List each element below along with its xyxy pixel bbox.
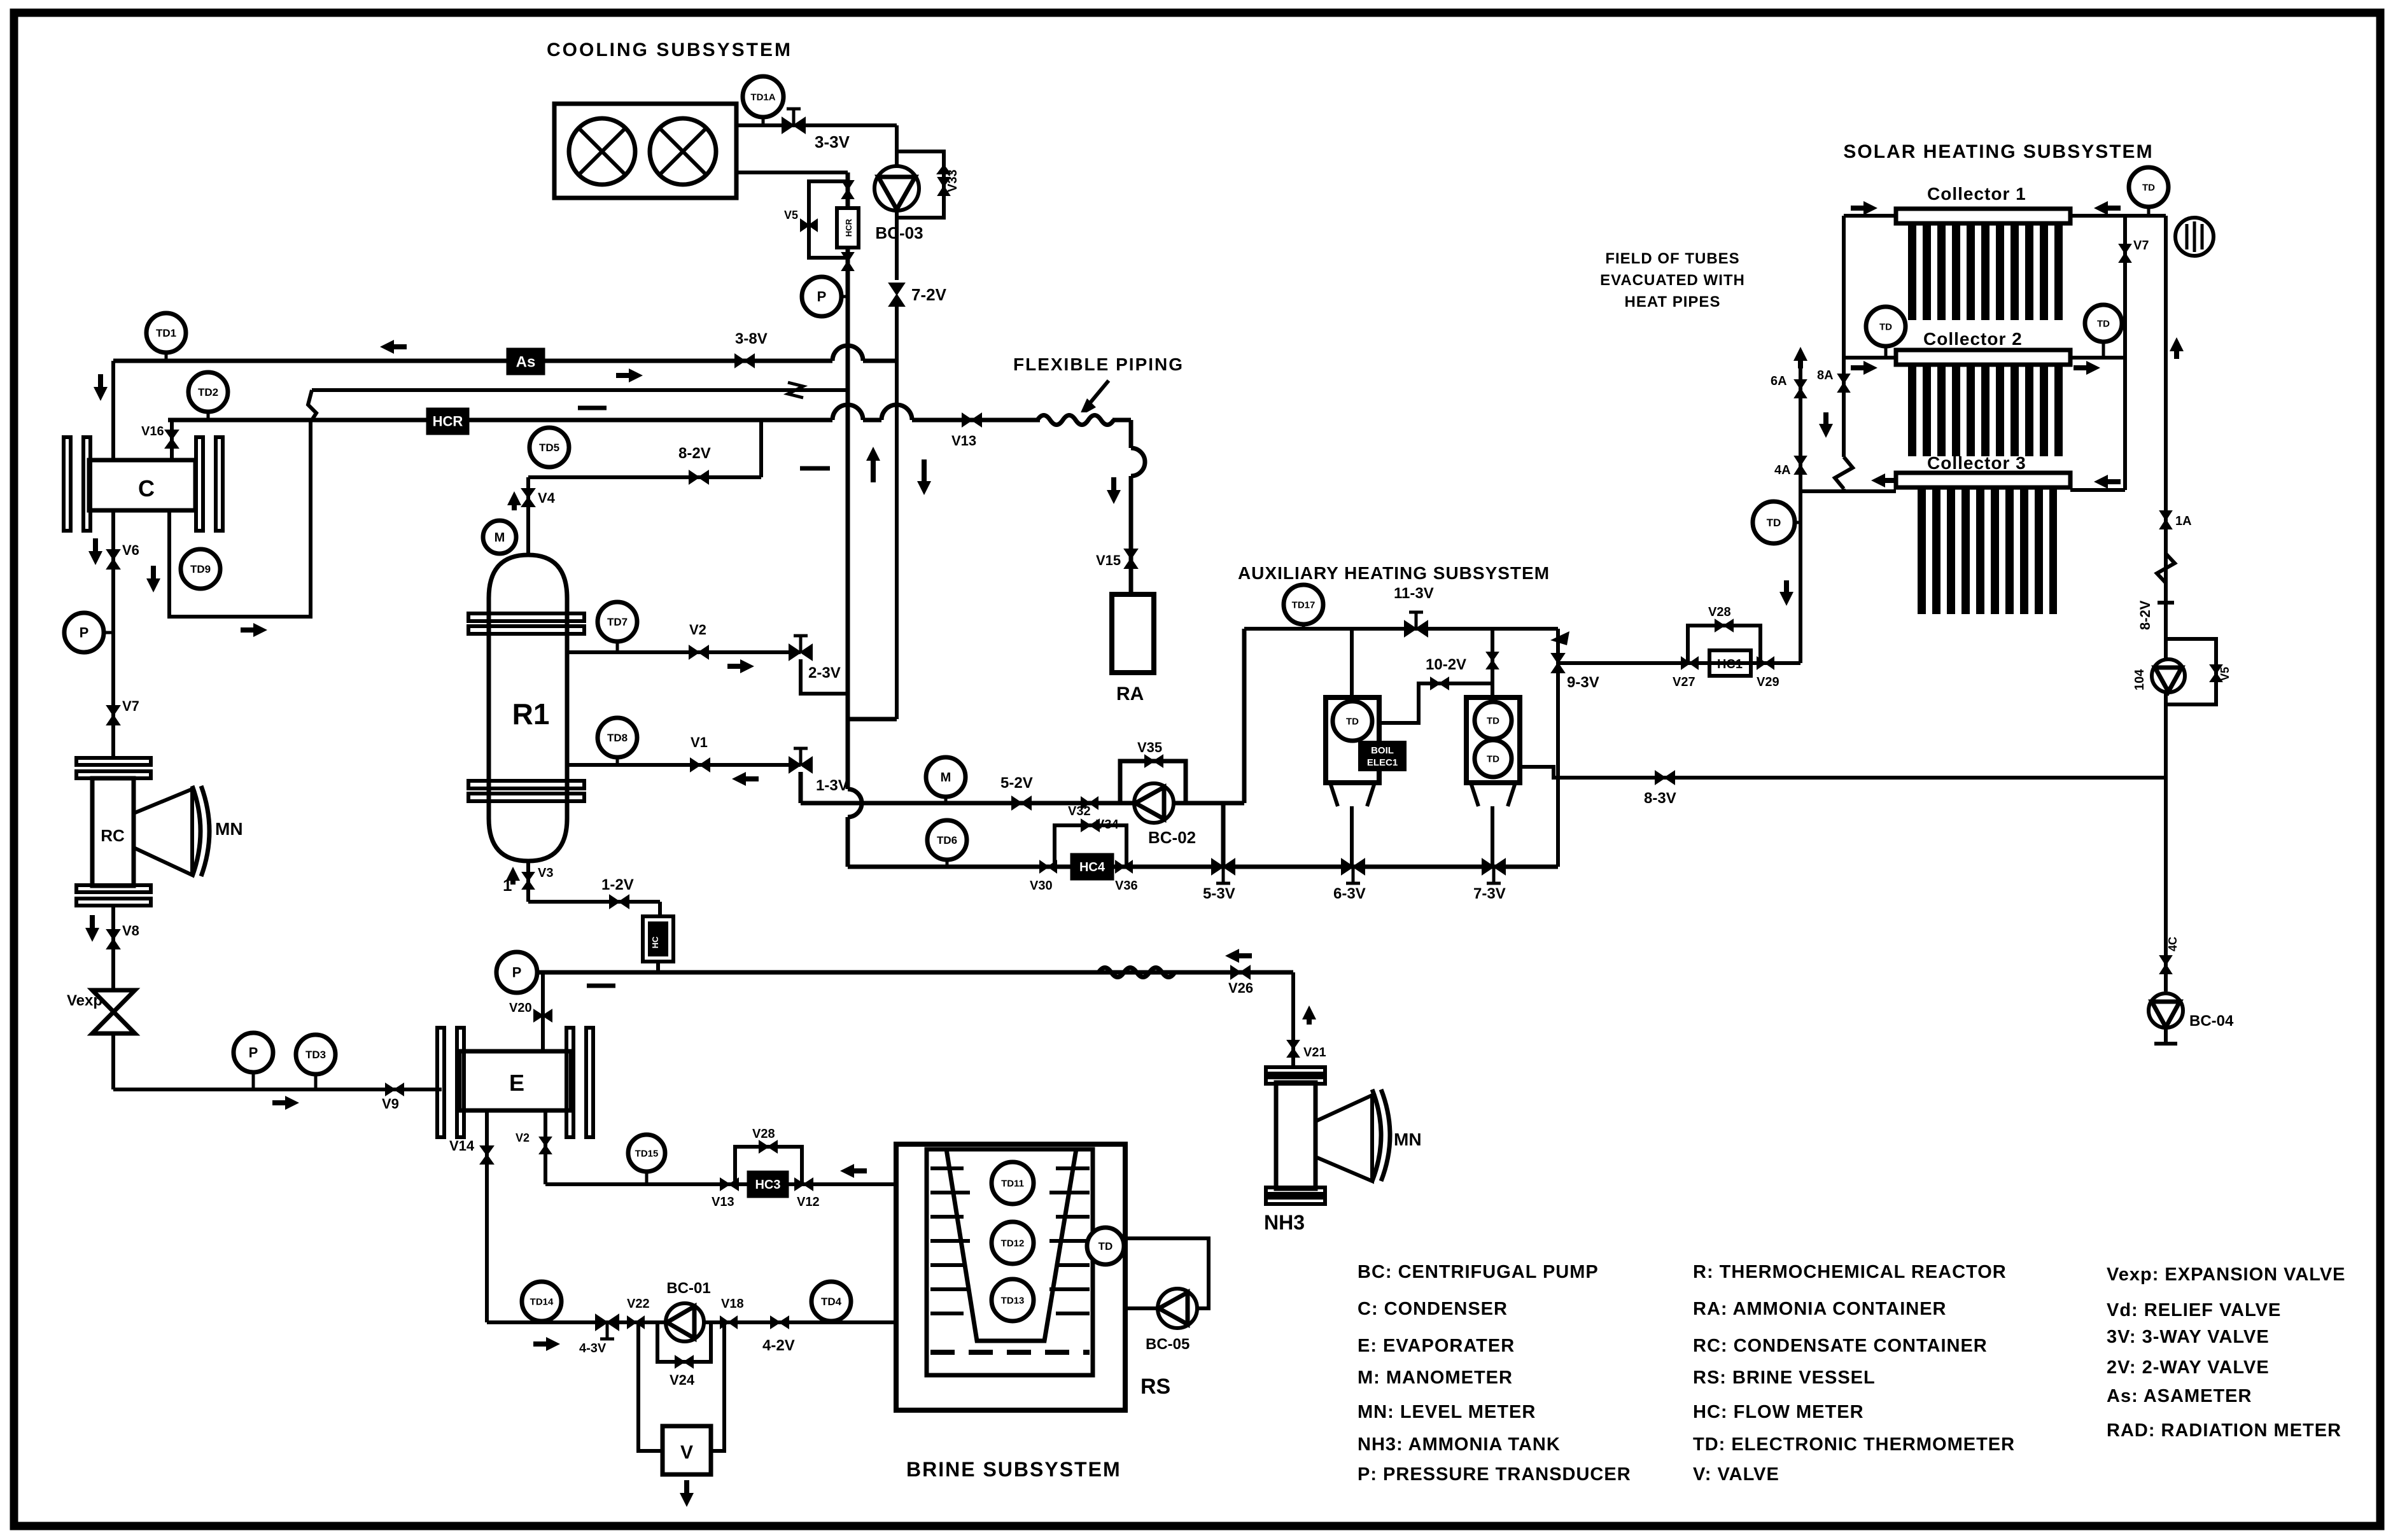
3-way valve 6-3V	[1342, 859, 1365, 874]
svg-text:TD6: TD6	[937, 834, 957, 846]
svg-text:HCR: HCR	[844, 218, 853, 237]
3-way valve 5-3V	[1212, 859, 1235, 874]
condenser C body	[89, 460, 195, 510]
svg-text:4-2V: 4-2V	[762, 1337, 795, 1354]
wire TD17 header line y988	[1244, 627, 1558, 631]
svg-text:P: P	[249, 1045, 258, 1061]
ammonia container RA	[1112, 594, 1154, 673]
wire line3 y660 condenser to flexible piping	[168, 418, 832, 423]
svg-text:HCR: HCR	[433, 414, 463, 430]
svg-text:V28: V28	[1708, 605, 1731, 619]
svg-text:11-3V: 11-3V	[1394, 585, 1434, 602]
svg-text:V27: V27	[1673, 675, 1695, 689]
fan 2	[650, 118, 716, 185]
reactor R1 lower flange	[468, 781, 584, 788]
svg-text:9-3V: 9-3V	[1567, 674, 1599, 691]
wire E to brine upper line y1861	[545, 1182, 896, 1186]
svg-text:TD2: TD2	[198, 386, 218, 398]
wire condenser bottom left down via V6	[111, 510, 115, 759]
solar pump bypass loop with valve V5	[2166, 639, 2216, 704]
wire R1 right upper line y1025	[567, 650, 801, 654]
svg-text:TD: TD	[1098, 1240, 1113, 1252]
valve V7 on right loop	[2119, 244, 2131, 262]
valve 1-2V	[610, 895, 629, 908]
valve V29	[1757, 657, 1774, 669]
dash mark under line3 right of TD5	[800, 466, 830, 471]
svg-text:10-2V: 10-2V	[1426, 656, 1466, 673]
3-way valve 3-3V	[782, 118, 805, 133]
brine funnel	[946, 1149, 1076, 1341]
wire line y1528 from P to NH3 corner (with flexible section)	[1100, 965, 1173, 980]
wire R1 right lower line y1202	[567, 763, 801, 767]
valve 7-2V	[889, 283, 904, 306]
svg-text:V30: V30	[1030, 879, 1053, 893]
svg-text:V8: V8	[122, 923, 139, 939]
svg-text:2V: 2-WAY VALVE: 2V: 2-WAY VALVE	[2107, 1357, 2270, 1378]
svg-text:TD: TD	[2097, 318, 2110, 329]
valve 4A on return riser	[1795, 456, 1806, 474]
wire BC-02 suction line y1262	[801, 801, 1244, 806]
arrow left on upper brine line	[845, 1168, 867, 1173]
arrow right before 2-3V	[727, 664, 749, 669]
svg-text:7-3V: 7-3V	[1473, 885, 1506, 902]
svg-text:R1: R1	[512, 697, 550, 731]
flow meter HC3 box	[747, 1171, 789, 1198]
instrument TD22 above collector2 left	[1866, 307, 1905, 346]
wire collector3 right link	[2070, 488, 2125, 492]
svg-text:FIELD OF TUBES: FIELD OF TUBES	[1605, 250, 1739, 267]
svg-text:BC-02: BC-02	[1148, 828, 1196, 847]
fan unit (air cooler) box	[554, 104, 736, 198]
arrow down below V box	[684, 1480, 689, 1502]
svg-text:6-3V: 6-3V	[1333, 885, 1366, 902]
instrument TD4	[811, 1282, 851, 1321]
wire 10-2V link boiler1 to boiler2	[1379, 683, 1492, 723]
arrow right on line2	[616, 373, 638, 378]
wire bottom 3V line y1362	[848, 865, 1558, 869]
wire boiler 1 bottom stub to 6-3V	[1350, 806, 1354, 867]
svg-text:V13: V13	[951, 433, 976, 449]
valve V8	[107, 930, 120, 949]
svg-text:V4: V4	[538, 490, 556, 506]
ammonia tank NH3 bottom flange	[1266, 1187, 1325, 1194]
svg-text:V5: V5	[2219, 667, 2231, 681]
arrow down between solar verticals	[1823, 412, 1828, 433]
svg-text:2-3V: 2-3V	[808, 664, 841, 682]
pump BC-01 bypass with valve V24	[657, 1322, 711, 1362]
svg-text:RS: RS	[1140, 1375, 1170, 1399]
wire collector2 left link	[1844, 356, 1896, 360]
arrow up beside riser x1332	[871, 452, 876, 482]
valve V2	[689, 646, 708, 659]
svg-text:8-2V: 8-2V	[2137, 600, 2153, 630]
instrument TD19 in boiler 2	[1475, 702, 1512, 739]
svg-text:V21: V21	[1303, 1046, 1326, 1060]
valve V13b	[720, 1179, 738, 1190]
wire fanbox top to pump corner y197	[736, 123, 897, 127]
wire R1 bottom line to HCR2	[528, 900, 660, 904]
valve V36	[1116, 861, 1132, 872]
svg-text:P: PRESSURE TRANSDUCER: P: PRESSURE TRANSDUCER	[1358, 1464, 1631, 1485]
wire solar lower header line y772	[1800, 489, 1896, 493]
svg-text:TD15: TD15	[635, 1148, 659, 1159]
instrument TD21 top right	[2129, 167, 2168, 207]
instrument TD3 on evaporator feed	[296, 1035, 335, 1074]
arrow left on line1	[385, 344, 407, 349]
svg-text:Vexp: Vexp	[67, 992, 102, 1009]
svg-text:V33: V33	[946, 169, 960, 192]
svg-text:RA: RA	[1116, 683, 1144, 704]
wire corner x1777 down to RA	[1114, 418, 1131, 422]
instrument TD20 in boiler 2	[1475, 740, 1512, 777]
valve 8A on solar left loop	[1838, 374, 1849, 392]
brine vessel RS outer shell	[896, 1144, 1125, 1410]
valve 4-2V	[771, 1317, 789, 1328]
arrow right under pump line	[533, 1341, 555, 1347]
jog line2 left end down to line3	[308, 390, 316, 420]
svg-text:V7: V7	[2133, 239, 2149, 253]
wire E top riser with valve V20	[541, 972, 545, 1051]
pump BC-02 bypass with valve V35	[1120, 761, 1186, 803]
svg-text:V18: V18	[721, 1297, 744, 1311]
svg-text:BRINE SUBSYSTEM: BRINE SUBSYSTEM	[906, 1458, 1121, 1481]
svg-text:V35: V35	[1137, 739, 1162, 755]
valve V16 into condenser top	[170, 420, 174, 460]
instrument P on evaporator top line	[496, 952, 537, 993]
instrument TD11 in funnel	[992, 1162, 1034, 1204]
wire R1 top line y750 with valve 8-2V	[528, 475, 761, 479]
instrument M above suction line	[926, 757, 965, 797]
electric boiler 1 box	[1326, 697, 1379, 783]
boiler 1 legs	[1330, 783, 1338, 806]
svg-text:M: M	[495, 531, 505, 545]
arrow up top of return riser	[1798, 352, 1803, 368]
wire riser below junction to BC-04	[2164, 778, 2168, 991]
break symbol on line2	[788, 382, 803, 398]
instrument TD1M in boiler 1	[1333, 701, 1372, 741]
arrow down below RC	[90, 915, 95, 937]
arrow down left of V6	[93, 538, 98, 560]
svg-text:V16: V16	[141, 424, 164, 438]
valve V30	[1040, 861, 1056, 872]
wire right collector loop x3339	[2123, 216, 2127, 490]
wire brine pump line y2078	[487, 1320, 896, 1324]
valve 3-8V on line1	[735, 354, 754, 367]
valve V9	[386, 1084, 404, 1095]
instrument TD7	[598, 602, 637, 641]
svg-text:V15: V15	[1096, 552, 1121, 568]
svg-text:1A: 1A	[2175, 514, 2192, 528]
radiation meter RAD	[2175, 218, 2214, 256]
wire riser x1955 up to TD17 line	[1242, 629, 1247, 803]
arrow down beside riser x1409	[922, 459, 927, 490]
svg-text:E: EVAPORATER: E: EVAPORATER	[1358, 1336, 1515, 1356]
wire 1-3V stub down to BC-02 suction line	[799, 772, 803, 803]
svg-text:V36: V36	[1115, 879, 1138, 893]
evaporator E left flange	[437, 1028, 444, 1137]
solar pump 104	[2152, 659, 2185, 692]
wire line1 y567 condenser to pump riser	[113, 359, 832, 363]
svg-text:TD3: TD3	[305, 1049, 326, 1061]
arrow right under loop	[241, 627, 262, 633]
flow meter HC4 box	[1070, 853, 1114, 880]
valve V12	[795, 1179, 813, 1190]
valve V7	[107, 706, 120, 725]
valve 6A on return riser	[1795, 380, 1806, 398]
svg-text:TD: ELECTRONIC THERMOMETER: TD: ELECTRONIC THERMOMETER	[1693, 1434, 2015, 1455]
wire boiler 2 top stub with valve	[1491, 629, 1494, 697]
flexible piping wavy section on line3	[1040, 412, 1112, 428]
svg-text:Collector 3: Collector 3	[1927, 453, 2026, 473]
valve V1	[691, 759, 710, 771]
valve V15 above RA	[1125, 549, 1137, 568]
valve V34	[1081, 797, 1098, 809]
svg-text:V20: V20	[509, 1001, 532, 1015]
svg-text:TD9: TD9	[190, 563, 211, 575]
boiler 2 legs	[1471, 783, 1478, 806]
valve V22	[628, 1317, 644, 1328]
svg-text:6A: 6A	[1771, 374, 1787, 388]
brine liquid level dashed line	[930, 1350, 1090, 1355]
svg-text:TD: TD	[1487, 715, 1499, 726]
svg-text:3V: 3-WAY VALVE: 3V: 3-WAY VALVE	[2107, 1327, 2270, 1347]
instrument TD1A	[743, 76, 783, 117]
fan 1	[569, 118, 635, 185]
solar collector 3 header	[1896, 473, 2070, 487]
instrument TD13 in funnel	[992, 1279, 1034, 1321]
bypass loop with valve V32 over HC4	[1055, 825, 1126, 867]
wire pump discharge to 5-3V	[1221, 803, 1226, 867]
valve V26 on y1528 line	[1231, 966, 1250, 979]
svg-text:RAD: RADIATION METER: RAD: RADIATION METER	[2107, 1420, 2341, 1441]
wire far right riser x3403 down to BC-04	[2164, 216, 2168, 778]
wire R1 bottom stub with valve V3	[526, 861, 530, 902]
instrument TD15	[628, 1135, 665, 1172]
arrow right on evaporator feed	[272, 1100, 294, 1105]
svg-text:HC3: HC3	[755, 1178, 780, 1192]
svg-text:C: CONDENSER: C: CONDENSER	[1358, 1299, 1508, 1319]
svg-text:TD17: TD17	[1292, 599, 1316, 610]
svg-text:TD14: TD14	[530, 1296, 554, 1307]
bypass loop with valve V28 over HC3	[735, 1147, 802, 1184]
flow meter HCR2 box	[643, 916, 673, 962]
brine vessel RS inner shell	[927, 1149, 1093, 1375]
wire corner down to NH3 with valve V21	[1291, 972, 1295, 1068]
pump BC-02	[1134, 783, 1174, 823]
svg-text:TD7: TD7	[607, 616, 628, 628]
svg-text:RC: RC	[101, 826, 125, 845]
valve on HCR2 riser lower	[842, 253, 853, 270]
svg-text:V2: V2	[516, 1131, 530, 1144]
wire boiler 2 bottom stub to 7-3V	[1491, 806, 1494, 867]
svg-text:V32: V32	[1068, 804, 1091, 818]
svg-text:SOLAR HEATING SUBSYSTEM: SOLAR HEATING SUBSYSTEM	[1843, 141, 2153, 162]
svg-text:BC-05: BC-05	[1146, 1336, 1189, 1353]
valve V13 on line3	[962, 414, 981, 426]
wire 2-3V stub to riser x1332	[801, 659, 848, 694]
svg-text:1-2V: 1-2V	[601, 876, 634, 893]
wire 9-3V riser x2448	[1556, 629, 1560, 867]
wire line1 left end down to condenser top	[111, 361, 115, 460]
valve 8-3V	[1655, 771, 1674, 784]
svg-text:TD: TD	[2142, 182, 2155, 193]
arrow left on collector3 left link	[1876, 478, 1898, 483]
svg-text:MN: MN	[215, 819, 243, 839]
svg-text:5-3V: 5-3V	[1203, 885, 1235, 902]
svg-text:V: V	[680, 1442, 693, 1463]
svg-text:Collector 1: Collector 1	[1927, 184, 2026, 204]
instrument TD8	[598, 718, 637, 757]
svg-text:P: P	[80, 625, 89, 641]
wire collector2 right link	[2070, 356, 2125, 360]
svg-text:BC: CENTRIFUGAL PUMP: BC: CENTRIFUGAL PUMP	[1358, 1262, 1599, 1282]
svg-text:V7: V7	[122, 698, 139, 714]
bypass loop around HCR2 with valve V5c	[809, 181, 848, 258]
level meter MN on NH3	[1316, 1095, 1372, 1181]
svg-text:ELEC1: ELEC1	[1367, 757, 1398, 768]
svg-text:NH3: NH3	[1264, 1211, 1305, 1234]
condensate container RC top flange	[76, 758, 151, 765]
svg-text:V14: V14	[449, 1138, 475, 1154]
flow meter HC1 box	[1709, 650, 1751, 676]
svg-text:3-3V: 3-3V	[815, 132, 850, 151]
svg-text:M: MANOMETER: M: MANOMETER	[1358, 1368, 1513, 1388]
solar collector 3 tubes	[1918, 488, 2057, 614]
vacuum pump V box circuit	[638, 1322, 663, 1451]
arrow down into condenser	[98, 374, 103, 396]
svg-text:BC-01: BC-01	[666, 1280, 710, 1297]
svg-text:Vexp: EXPANSION VALVE: Vexp: EXPANSION VALVE	[2107, 1264, 2346, 1285]
svg-text:V: VALVE: V: VALVE	[1693, 1464, 1779, 1485]
svg-text:7-2V: 7-2V	[911, 285, 947, 304]
svg-text:V3: V3	[538, 866, 553, 880]
valve 5-2V	[1012, 797, 1031, 809]
svg-text:TD12: TD12	[1001, 1238, 1025, 1249]
svg-text:4C: 4C	[2166, 937, 2179, 951]
instrument TD17	[1284, 585, 1323, 624]
wire collector1 right link to far riser	[2070, 214, 2166, 218]
flow controller HCR2 box (cooling)	[837, 208, 859, 248]
wire solar left loop x2897	[1842, 216, 1846, 457]
wire HCR2 riser x1332	[846, 172, 850, 789]
evaporator E right flange	[566, 1028, 573, 1137]
svg-text:TD4: TD4	[821, 1296, 842, 1308]
instrument TD6 above HC4 line	[927, 820, 967, 860]
instrument TD9 under condenser	[181, 549, 220, 589]
3-way valve 4-3V junction	[596, 1315, 619, 1330]
svg-text:TD1A: TD1A	[750, 92, 775, 102]
svg-text:1-3V: 1-3V	[816, 777, 848, 794]
svg-text:FLEXIBLE PIPING: FLEXIBLE PIPING	[1013, 354, 1184, 374]
3-way valve 2-3V	[789, 645, 812, 660]
wire solar return riser x2829	[1799, 354, 1802, 663]
svg-text:RS: BRINE VESSEL: RS: BRINE VESSEL	[1693, 1368, 1876, 1388]
valve 11-3V	[1405, 621, 1428, 636]
expansion valve Vexp	[92, 990, 135, 1033]
svg-text:Vd: RELIEF VALVE: Vd: RELIEF VALVE	[2107, 1300, 2281, 1320]
solar collector 1 tubes	[1908, 223, 2067, 320]
svg-text:TD13: TD13	[1001, 1295, 1025, 1306]
svg-text:RA: AMMONIA CONTAINER: RA: AMMONIA CONTAINER	[1693, 1299, 1947, 1319]
valve above BC-04	[2160, 956, 2172, 974]
svg-text:4A: 4A	[1774, 463, 1791, 477]
instrument TD18 on return riser	[1753, 501, 1795, 543]
svg-text:As: ASAMETER: As: ASAMETER	[2107, 1386, 2252, 1406]
3-way valve 7-3V	[1482, 859, 1505, 874]
valve on HCR2 riser upper	[842, 181, 853, 199]
svg-text:V22: V22	[627, 1297, 650, 1311]
svg-text:V28: V28	[752, 1127, 775, 1141]
svg-text:C: C	[138, 475, 155, 501]
level meter MN on RC	[134, 789, 192, 875]
svg-text:BC-04: BC-04	[2189, 1012, 2234, 1030]
svg-text:3-8V: 3-8V	[735, 330, 768, 347]
svg-text:V13: V13	[712, 1195, 734, 1209]
svg-text:HEAT PIPES: HEAT PIPES	[1625, 293, 1721, 311]
svg-text:TD: TD	[1767, 517, 1781, 529]
svg-text:V1: V1	[691, 734, 708, 750]
solar collector 1 header	[1896, 209, 2070, 223]
svg-text:V26: V26	[1228, 980, 1253, 996]
svg-text:Collector 2: Collector 2	[1923, 329, 2023, 349]
wire Vexp down and right to evaporator	[111, 1033, 115, 1089]
electric boiler 2 box	[1466, 697, 1520, 783]
wire boiler 1 top stub	[1350, 629, 1354, 697]
svg-text:MN: MN	[1394, 1130, 1422, 1149]
svg-text:8-3V: 8-3V	[1644, 790, 1676, 807]
wire E bottom left riser V14	[485, 1110, 489, 1322]
condensate container RC bottom flange	[76, 885, 151, 892]
3-way valve 1-3V	[789, 757, 812, 773]
arrow up beside V21	[1307, 1011, 1312, 1025]
instrument TD14 left on pump line	[522, 1282, 561, 1321]
evaporator E body	[460, 1051, 571, 1110]
wire pump down through 7-2V	[895, 211, 899, 280]
flow controller HCR box on line3	[426, 408, 469, 435]
arrow down left of TD9	[151, 566, 156, 587]
wire collector1 left link	[1844, 214, 1896, 218]
svg-text:P: P	[817, 289, 827, 305]
svg-text:NH3: AMMONIA TANK: NH3: AMMONIA TANK	[1358, 1434, 1561, 1455]
thermochemical reactor R1 vessel	[489, 555, 567, 861]
instrument TD2 above line3	[188, 372, 228, 412]
svg-text:HC: HC	[650, 936, 660, 948]
wire RC bottom to expansion valve	[111, 906, 115, 989]
svg-text:TD: TD	[1487, 753, 1499, 764]
instrument TD10 on RS wall	[1087, 1228, 1124, 1264]
svg-text:V12: V12	[797, 1195, 820, 1209]
arrow left after V1	[737, 776, 759, 781]
svg-text:TD8: TD8	[607, 732, 628, 744]
condenser C right flange	[196, 437, 203, 531]
pump BC-05 loop on RS	[1124, 1238, 1209, 1308]
svg-text:MN: LEVEL METER: MN: LEVEL METER	[1358, 1402, 1536, 1422]
svg-text:104: 104	[2133, 669, 2147, 690]
svg-text:V2: V2	[689, 622, 706, 638]
dash mark on line3	[578, 406, 607, 410]
svg-text:V6: V6	[122, 542, 139, 558]
wire E bottom right riser with valve	[544, 1110, 547, 1184]
condenser outlet loop to line2 (big loop around TD9)	[169, 420, 311, 617]
valve V18	[720, 1317, 737, 1328]
svg-text:M: M	[941, 771, 951, 785]
valve 1A on far right riser	[2160, 511, 2172, 529]
asameter As box	[507, 348, 545, 375]
solar collector 2 header	[1896, 350, 2070, 365]
svg-text:R: THERMOCHEMICAL REACTOR: R: THERMOCHEMICAL REACTOR	[1693, 1262, 2007, 1282]
svg-text:8-2V: 8-2V	[678, 445, 711, 462]
break symbol on far right riser	[2157, 554, 2175, 583]
